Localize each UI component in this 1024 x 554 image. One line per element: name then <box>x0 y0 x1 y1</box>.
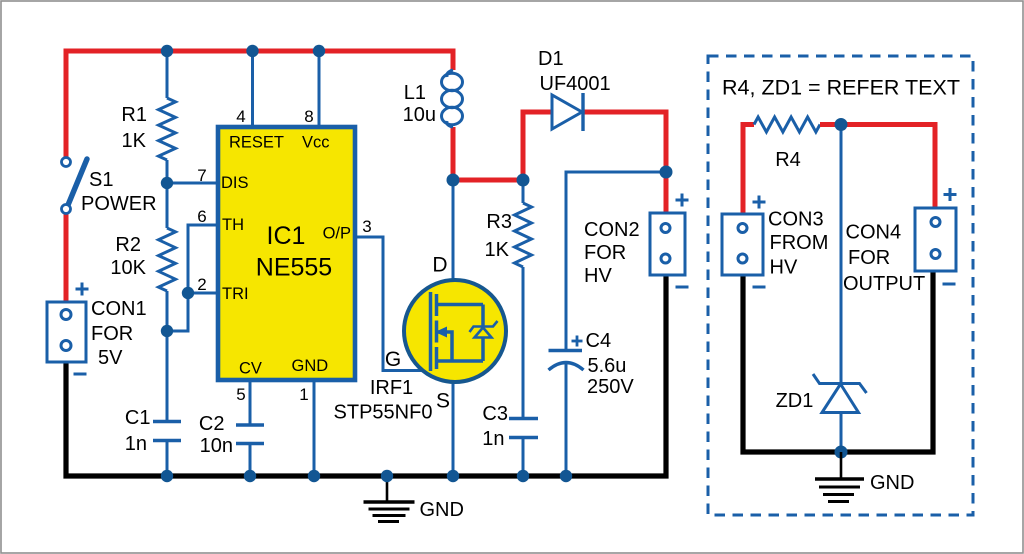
svg-text:O/P: O/P <box>323 225 351 243</box>
inductor L1 <box>442 70 463 127</box>
resistor R4 <box>754 117 820 132</box>
svg-text:D1: D1 <box>538 48 564 70</box>
plus CON1 <box>76 283 89 296</box>
node: pin8 top <box>313 45 325 57</box>
diode D1 UF4001 <box>552 95 582 129</box>
wire: R3 bottom to C3 <box>522 267 525 419</box>
svg-text:IC1: IC1 <box>267 222 306 250</box>
svg-text:S: S <box>436 390 450 413</box>
svg-text:R4: R4 <box>775 149 801 171</box>
wire: red from diode to CON2 <box>583 112 666 215</box>
source rail <box>437 359 484 363</box>
wire: CV pin 5 to C2 <box>249 380 252 425</box>
wire: O/P pin 3 to gate <box>356 237 430 371</box>
svg-text:S1: S1 <box>89 169 113 191</box>
wire: GND pin 1 to bus <box>313 380 316 476</box>
wire: top VCC red bus <box>66 51 453 159</box>
svg-text:G: G <box>385 348 401 371</box>
svg-text:C4: C4 <box>586 330 612 352</box>
svg-text:5: 5 <box>236 385 245 404</box>
zener triangle <box>475 328 492 338</box>
ground GND right <box>840 452 843 478</box>
drain stub <box>437 303 484 307</box>
wire: R2 bottom to C1 <box>166 291 169 422</box>
svg-text:8: 8 <box>304 107 313 126</box>
svg-text:UF4001: UF4001 <box>540 73 611 95</box>
node: R1 top <box>161 45 173 57</box>
wire: C4 bottom to bus <box>565 362 568 476</box>
transistor Q1: MOSFET IRF1 STP55NF0 <box>404 280 506 382</box>
svg-text:R1: R1 <box>121 104 147 126</box>
svg-text:1n: 1n <box>482 428 504 450</box>
svg-text:OUTPUT: OUTPUT <box>843 273 925 295</box>
node: bus source <box>447 470 459 482</box>
node: DIS junction <box>161 177 173 189</box>
svg-text:10n: 10n <box>200 435 233 457</box>
node: R3 top <box>517 174 530 187</box>
svg-text:1n: 1n <box>125 433 147 455</box>
node: bus C1 <box>161 470 173 482</box>
svg-text:CON4: CON4 <box>846 222 902 244</box>
svg-text:FROM: FROM <box>770 232 829 254</box>
svg-text:C2: C2 <box>199 413 225 435</box>
capacitor C4 electrolytic <box>549 349 583 352</box>
plus C4 <box>572 336 583 347</box>
minus CON1 <box>74 373 87 376</box>
wire: blue from HV node to C4 <box>566 172 666 352</box>
svg-text:10u: 10u <box>403 104 436 126</box>
wire: Vcc pin 8 <box>318 51 321 127</box>
svg-text:6: 6 <box>197 207 206 226</box>
svg-text:HV: HV <box>770 257 798 279</box>
node: R2 bottom junction <box>161 325 173 337</box>
switch S1 <box>68 159 87 205</box>
svg-text:FOR: FOR <box>584 242 626 264</box>
node: pin4 top <box>246 45 258 57</box>
wire: node to R2 top <box>166 183 169 228</box>
svg-text:CON2: CON2 <box>584 219 640 241</box>
minus CON4 <box>943 283 956 286</box>
wire: black CON3 to CON4 ground <box>743 269 933 452</box>
wire: red up to diode row <box>523 112 552 182</box>
svg-text:IRF1: IRF1 <box>370 377 413 399</box>
plus CON2 <box>676 194 689 207</box>
wire: red from switch bottom to CON1 <box>64 211 69 303</box>
wire: black ground bus bottom <box>66 273 666 476</box>
gate bar <box>429 292 433 371</box>
capacitor C1 <box>153 422 181 441</box>
connector CON4 <box>915 208 956 271</box>
ground GND middle <box>386 476 389 501</box>
node: bus C4 <box>560 470 572 482</box>
svg-text:STP55NF0: STP55NF0 <box>334 402 433 424</box>
zener diode ZD1 <box>840 413 843 453</box>
resistor R1 <box>159 98 176 160</box>
capacitor C2 <box>236 425 264 444</box>
minus CON2 <box>676 286 689 289</box>
connector CON3 <box>722 214 763 275</box>
svg-text:CON1: CON1 <box>91 298 147 320</box>
svg-text:CON3: CON3 <box>768 209 824 231</box>
node: bus C3 <box>517 470 529 482</box>
resistor R3 <box>515 203 532 267</box>
svg-text:TH: TH <box>222 216 244 234</box>
svg-text:RESET: RESET <box>229 134 284 152</box>
svg-text:5.6u: 5.6u <box>588 355 627 377</box>
wire: TRI pin 2 <box>188 292 218 295</box>
resistor R2 <box>159 228 176 291</box>
svg-text:FOR: FOR <box>848 247 890 269</box>
svg-text:C3: C3 <box>482 403 508 425</box>
node: L1 bottom <box>447 174 460 187</box>
svg-text:R3: R3 <box>486 211 512 233</box>
wire: blue node to ZD1 <box>840 125 843 385</box>
wire: MOSFET source to bus <box>452 360 455 476</box>
wire: R1 top feed <box>166 51 169 98</box>
zener bar with wings <box>470 321 498 332</box>
wire: C3 bottom to bus <box>522 438 525 477</box>
node: bus ground symbol <box>381 470 393 482</box>
svg-text:1K: 1K <box>485 239 510 261</box>
body diode arrow <box>435 327 447 338</box>
svg-text:D: D <box>432 254 447 277</box>
svg-text:FOR: FOR <box>91 323 133 345</box>
dashed boundary box <box>708 56 973 515</box>
wire: C1 bottom to bus <box>166 441 169 477</box>
svg-text:R2: R2 <box>115 234 141 256</box>
svg-text:CV: CV <box>239 360 262 378</box>
wire: TRI node down to R2 line <box>167 293 188 331</box>
wire: R1 bottom to DIS node <box>166 160 169 185</box>
svg-text:TRI: TRI <box>222 285 249 303</box>
svg-text:7: 7 <box>197 166 206 185</box>
svg-text:1: 1 <box>299 385 308 404</box>
wire: DIS pin 7 <box>167 182 218 185</box>
wire: C2 bottom to bus <box>249 444 252 477</box>
svg-text:R4, ZD1 = REFER TEXT: R4, ZD1 = REFER TEXT <box>722 76 960 100</box>
capacitor C3 <box>509 419 538 438</box>
connector CON2 <box>650 213 685 275</box>
wire: red R4 to CON4 <box>820 125 935 211</box>
wire: red node to R3 node <box>451 178 525 183</box>
svg-text:POWER: POWER <box>81 193 157 215</box>
connector CON1 <box>47 302 86 362</box>
svg-text:L1: L1 <box>404 82 426 104</box>
svg-text:GND: GND <box>870 472 914 494</box>
svg-text:GND: GND <box>292 357 329 375</box>
wire: MOSFET drain from node <box>452 180 455 305</box>
svg-text:1K: 1K <box>122 130 147 152</box>
svg-text:GND: GND <box>420 499 464 521</box>
svg-text:5V: 5V <box>98 347 123 369</box>
svg-text:2: 2 <box>197 275 206 294</box>
svg-text:Vcc: Vcc <box>302 134 330 152</box>
node: bus GND pin <box>308 470 320 482</box>
wire: TH pin 6 <box>188 225 218 293</box>
svg-text:DIS: DIS <box>221 174 249 192</box>
wire: red CON3 to R4 <box>743 125 754 217</box>
svg-text:ZD1: ZD1 <box>776 390 814 412</box>
wire: RESET pin 4 <box>251 51 254 127</box>
svg-text:NE555: NE555 <box>256 254 332 282</box>
plus CON4 <box>944 188 957 201</box>
node: TRI junction <box>182 287 194 299</box>
channel segments <box>435 294 439 316</box>
svg-text:HV: HV <box>584 265 612 287</box>
wire: red below L1 to node <box>451 127 456 181</box>
svg-text:10K: 10K <box>110 257 146 279</box>
svg-text:250V: 250V <box>587 376 634 398</box>
zener body diode <box>481 305 485 327</box>
node: ZD1 ground junction <box>835 446 848 459</box>
svg-text:C1: C1 <box>125 407 151 429</box>
node: HV node <box>660 166 673 179</box>
svg-text:4: 4 <box>236 107 245 126</box>
svg-text:3: 3 <box>362 217 371 236</box>
wire: R3 top <box>522 180 525 203</box>
plus CON3 <box>753 196 766 209</box>
op-amp U1: IC1 NE555 body <box>218 127 355 380</box>
node: R4 output <box>835 118 848 131</box>
node: bus C2 <box>244 470 256 482</box>
body stub <box>438 332 452 361</box>
minus CON3 <box>753 286 766 289</box>
